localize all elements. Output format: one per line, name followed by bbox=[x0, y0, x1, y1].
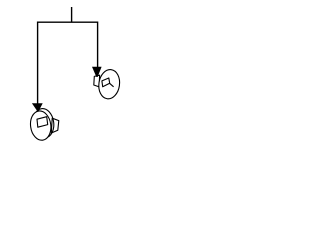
left icon: mounting tab bbox=[51, 118, 59, 133]
right icon: window bbox=[102, 78, 110, 87]
left icon: front face bbox=[29, 110, 53, 142]
right icon: mounting tab bbox=[94, 75, 100, 87]
left icon: window bbox=[37, 117, 48, 128]
arrowhead left bbox=[32, 103, 43, 111]
speaker icon right bbox=[94, 68, 122, 100]
left icon: back rim bbox=[32, 107, 56, 139]
speaker icon left bbox=[29, 107, 59, 141]
wire: top stub bbox=[71, 7, 73, 22]
wire: left vertical drop bbox=[37, 22, 39, 105]
wire: horizontal branch bbox=[38, 21, 98, 23]
arrowhead right bbox=[92, 67, 102, 77]
right icon: window depth edge bbox=[110, 83, 114, 86]
wire: right vertical drop bbox=[97, 22, 99, 68]
right icon: body bbox=[97, 68, 121, 100]
